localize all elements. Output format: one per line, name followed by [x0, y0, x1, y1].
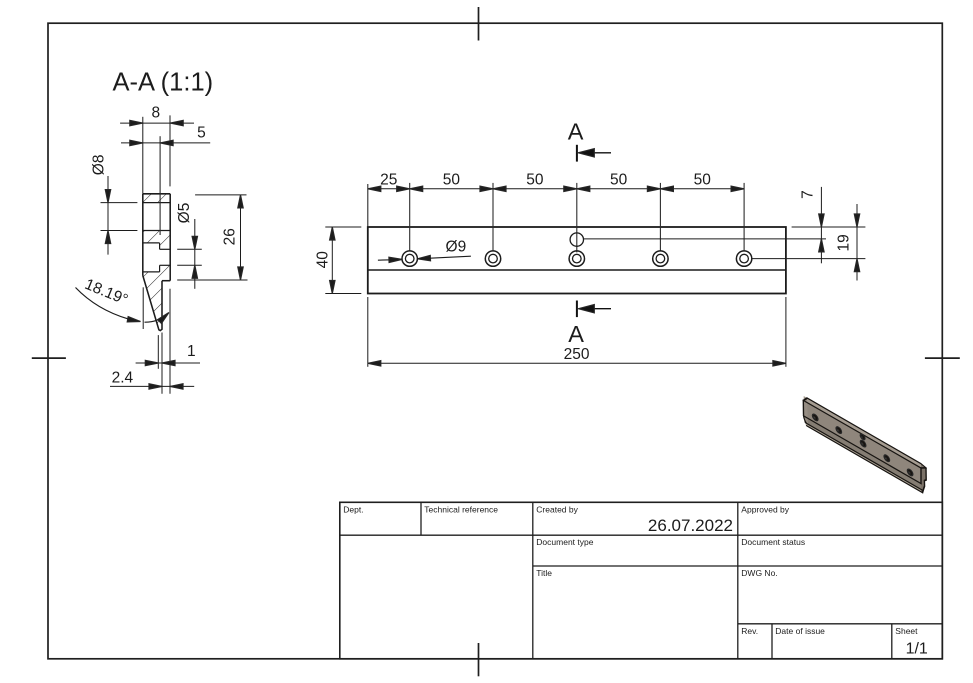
svg-text:Rev.: Rev.: [741, 626, 758, 636]
svg-text:Date of issue: Date of issue: [775, 626, 825, 636]
svg-text:50: 50: [694, 172, 712, 189]
section profile inner edges: [143, 203, 170, 272]
3D part hole 3: [860, 439, 866, 448]
3D part bottom sliver: [806, 423, 923, 493]
hole 4: [653, 251, 668, 266]
svg-text:50: 50: [526, 172, 544, 189]
svg-text:Approved by: Approved by: [741, 504, 789, 514]
hole 2: [485, 251, 500, 266]
svg-text:Ø9: Ø9: [446, 238, 467, 255]
title block grid lines: [340, 502, 943, 659]
svg-text:250: 250: [564, 346, 590, 363]
centering mark top: [478, 7, 480, 41]
svg-text:50: 50: [443, 172, 461, 189]
dimension 1 (tip thickness): [136, 289, 200, 394]
svg-text:1: 1: [187, 343, 196, 360]
title block outline: [340, 502, 943, 659]
section line marker A bottom: [576, 301, 578, 318]
svg-text:A-A (1:1): A-A (1:1): [113, 69, 214, 97]
svg-text:Technical reference: Technical reference: [424, 504, 498, 514]
dimension 5 (counterbore depth): [121, 142, 210, 144]
svg-text:40: 40: [314, 251, 331, 269]
svg-text:26.07.2022: 26.07.2022: [648, 516, 733, 535]
3D part edge lines: [803, 396, 926, 495]
chained dimension 25/50x4: [368, 188, 744, 190]
main view part outline: [368, 227, 786, 294]
section profile hatch band middle: [143, 231, 170, 250]
svg-text:Title: Title: [536, 568, 552, 578]
svg-text:7: 7: [800, 190, 817, 199]
hole centerlines: [368, 183, 744, 253]
svg-text:DWG No.: DWG No.: [741, 568, 777, 578]
3D part front face: [804, 400, 922, 483]
svg-text:18.19°: 18.19°: [82, 276, 130, 309]
centering mark bottom: [478, 643, 480, 676]
hole 5: [736, 251, 751, 266]
svg-text:8: 8: [151, 105, 160, 122]
svg-text:Created by: Created by: [536, 504, 578, 514]
svg-text:Sheet: Sheet: [895, 626, 918, 636]
section line marker A top: [576, 145, 578, 162]
centering mark left: [32, 357, 66, 359]
3D part hole 4: [884, 454, 890, 463]
svg-text:26: 26: [222, 228, 239, 245]
3D isometric part: [803, 396, 926, 495]
svg-text:Ø8: Ø8: [91, 155, 108, 176]
svg-text:25: 25: [380, 172, 397, 189]
section profile outline: [143, 194, 170, 331]
svg-text:2.4: 2.4: [112, 369, 134, 386]
dimension 19 (right): [856, 204, 858, 281]
3D part hole 5: [907, 468, 913, 477]
main view bend line: [368, 269, 786, 271]
dimension 2.4 (base offset): [110, 385, 194, 387]
svg-text:1/1: 1/1: [906, 640, 928, 657]
svg-text:A: A: [568, 321, 584, 347]
svg-text:50: 50: [610, 172, 628, 189]
section profile hatch band top: [143, 194, 170, 203]
dimension 250 (length): [368, 297, 786, 367]
svg-text:Document status: Document status: [741, 537, 805, 547]
dimension diameter 5 (inner): [177, 219, 202, 289]
svg-text:Document type: Document type: [536, 537, 593, 547]
svg-text:A: A: [568, 118, 584, 144]
svg-text:5: 5: [197, 124, 206, 141]
section profile hatch blade lower: [143, 265, 170, 330]
svg-text:Ø5: Ø5: [176, 203, 193, 224]
dimension 8 (top width): [120, 115, 194, 193]
side hole circle: [570, 233, 583, 246]
dimension 7 (right): [584, 187, 866, 263]
dimension 26 (height): [177, 195, 247, 280]
3D part left end cap: [803, 396, 808, 424]
dimension 40 (width): [325, 227, 361, 294]
3D part blade band: [804, 416, 921, 489]
dimension diameter 8 (left): [101, 176, 138, 255]
3D part top face strip: [804, 396, 921, 468]
centering mark right: [925, 357, 960, 359]
svg-text:Dept.: Dept.: [343, 504, 363, 514]
3D part hole 1: [812, 413, 818, 422]
3D part side hole: [860, 433, 865, 441]
3D part hole 2: [836, 426, 842, 435]
counterbore depth line: [159, 136, 161, 235]
svg-text:19: 19: [836, 234, 853, 251]
hole 3: [569, 251, 584, 266]
hole 1: [402, 251, 417, 266]
3D part right end cap: [921, 464, 926, 495]
